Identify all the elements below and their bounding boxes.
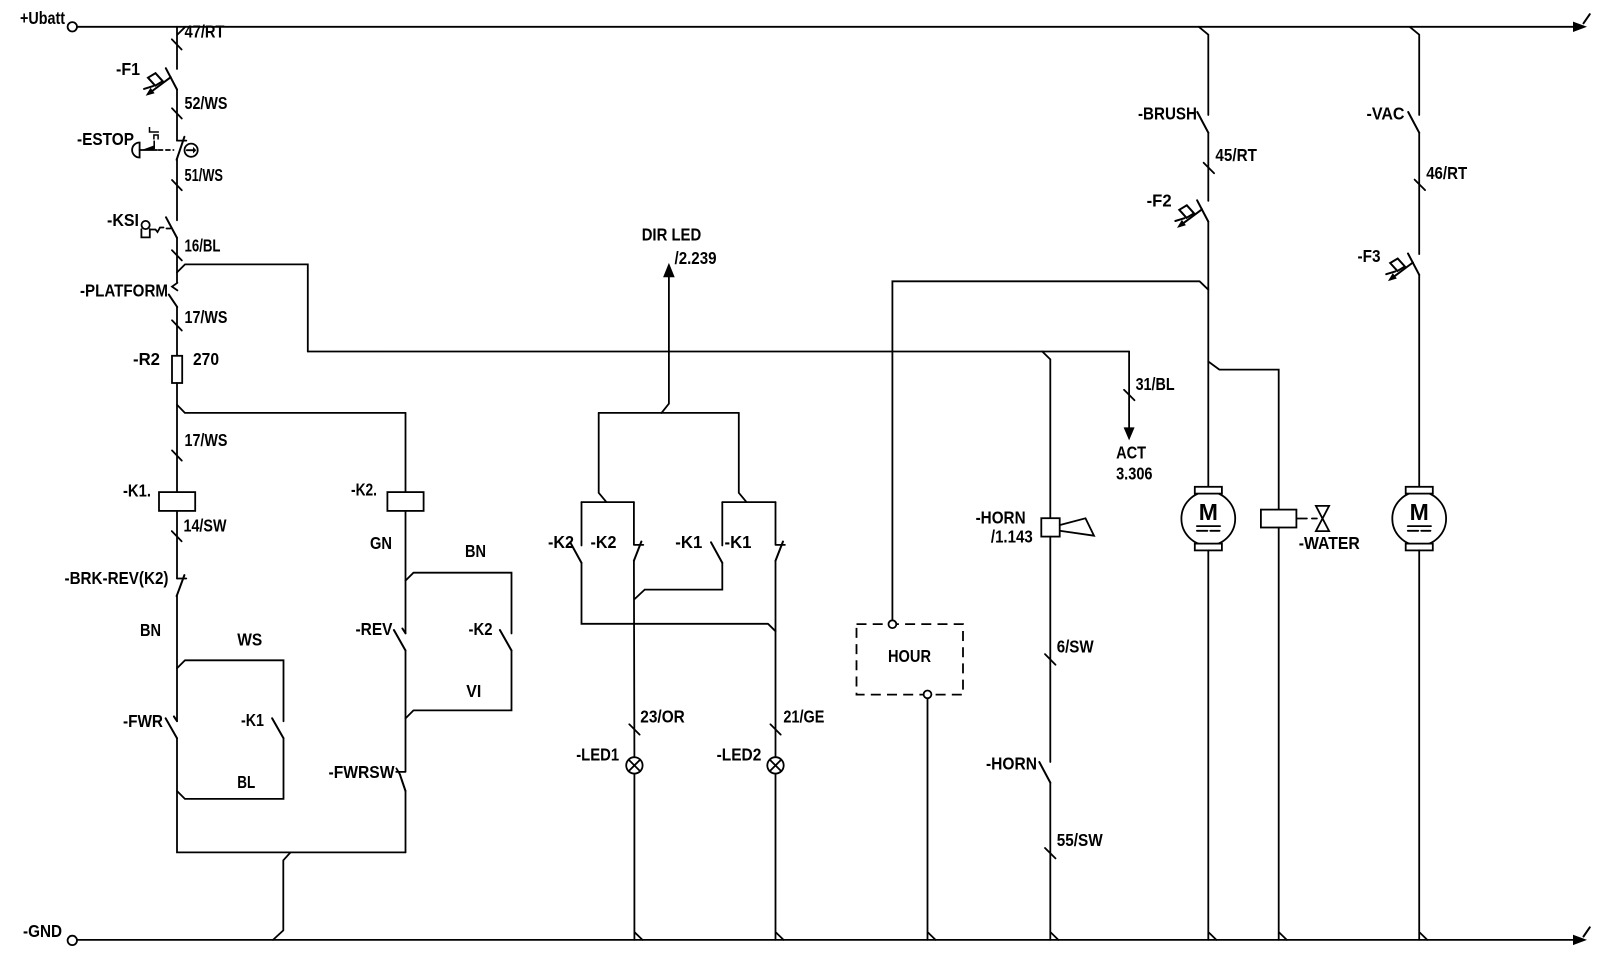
svg-text:46/RT: 46/RT [1426,163,1467,183]
wire horn branch from y=351 net [1042,352,1050,519]
svg-text:-ESTOP: -ESTOP [77,129,134,149]
svg-text:52/WS: 52/WS [185,93,228,113]
svg-text:17/WS: 17/WS [185,307,228,327]
wire F3 to vac motor [1418,275,1420,487]
svg-text:+Ubatt: +Ubatt [20,8,65,28]
wire HOUR to GND rail [928,698,936,940]
svg-text:ACT: ACT [1116,442,1146,462]
wire KSI to PLATFORM [176,238,178,282]
svg-text:-K1: -K1 [725,532,752,552]
wire cross-link K2a to LED2 column [582,563,776,631]
wire left sub-branch [599,413,607,502]
svg-text:-BRUSH: -BRUSH [1138,104,1197,124]
svg-text:45/RT: 45/RT [1215,145,1257,165]
svg-text:47/RT: 47/RT [185,22,225,42]
wire brush motor to GND rail [1208,550,1216,940]
wire left column from +Ubatt rail [177,27,185,69]
svg-text:HOUR: HOUR [888,646,931,666]
svg-text:/1.143: /1.143 [991,527,1033,547]
svg-text:BL: BL [237,772,255,792]
wire branch to horizontal net (y=264) [177,264,308,351]
svg-text:-K2.: -K2. [351,480,377,500]
svg-text:-REV: -REV [356,619,393,639]
wire FWR to bottom joining line [177,738,406,852]
wire F1 to ESTOP [176,90,178,141]
svg-text:-PLATFORM: -PLATFORM [80,281,168,301]
svg-text:-K1: -K1 [241,710,264,730]
wire LED1 column [633,561,636,758]
wire water coil to GND rail [1279,528,1287,940]
wire cross-link K1a to LED1 column [635,563,723,599]
svg-text:3.306: 3.306 [1116,464,1153,484]
wire PLATFORM to R2 [176,307,178,356]
svg-text:-GND: -GND [23,921,62,941]
svg-text:BN: BN [465,541,486,561]
svg-text:-F2: -F2 [1147,190,1172,210]
valve symbol [1316,506,1329,531]
svg-text:-WATER: -WATER [1299,533,1360,553]
svg-text:17/WS: 17/WS [185,430,228,450]
svg-text:-HORN: -HORN [986,753,1037,773]
svg-text:-LED1: -LED1 [576,744,619,764]
wire VAC switch to F3 [1418,133,1420,254]
svg-text:14/SW: 14/SW [184,516,227,536]
wire R2 to K1 coil with branch to K2 (y=413) [176,383,178,492]
svg-text:-HORN: -HORN [976,507,1026,527]
motor M (brush) [1181,487,1235,551]
svg-text:-BRK-REV(K2): -BRK-REV(K2) [65,568,169,588]
wire HOUR top feed [892,281,1208,620]
wire brush column from +Ubatt rail [1199,27,1209,115]
node ACT 3.306 reference arrow (31/BL) [1128,352,1130,429]
svg-text:BN: BN [140,620,161,640]
motor M (vacuum) [1392,487,1446,551]
wire F2 to brush motor [1207,222,1209,487]
wire HORN switch to GND rail [1050,783,1058,940]
wire LED1 to GND rail [634,774,642,940]
wire long horizontal net (y=351) [308,351,1129,353]
wire LED2 column [775,561,777,758]
wire -GND bottom rail [77,939,1574,941]
wire +Ubatt top rail [77,26,1574,28]
wire vac motor to GND rail [1419,550,1427,940]
wire horn to switch [1049,537,1051,762]
svg-text:-K1.: -K1. [123,481,151,501]
wire branch down to K2 coil [405,413,407,492]
svg-text:-VAC: -VAC [1367,104,1405,124]
solenoid coil WATER [1261,510,1297,528]
svg-text:55/SW: 55/SW [1057,830,1103,850]
wire FWRSW to bottom joining line [405,791,407,852]
svg-text:23/OR: 23/OR [640,706,685,726]
svg-text:-R2: -R2 [133,349,160,369]
svg-text:-LED2: -LED2 [717,744,762,764]
wire vac column from +Ubatt rail [1410,27,1420,115]
svg-text:VI: VI [466,681,481,701]
svg-text:-K2: -K2 [591,532,617,552]
svg-text:51/WS: 51/WS [185,165,224,185]
wire DIR LED vertical [662,277,669,413]
wire ESTOP to KSI [176,160,178,221]
svg-text:-F1: -F1 [116,59,140,79]
svg-text:-FWRSW: -FWRSW [329,762,395,782]
wire drop to GND rail at x=283 [273,852,291,940]
svg-text:21/GE: 21/GE [783,706,824,726]
hour meter HOUR (dashed box) [857,624,964,695]
svg-text:270: 270 [193,349,219,369]
svg-text:-KSI: -KSI [107,210,139,230]
svg-text:/2.239: /2.239 [675,248,717,268]
svg-text:WS: WS [237,630,262,650]
svg-text:6/SW: 6/SW [1057,637,1094,657]
svg-text:GN: GN [370,533,392,553]
wire right sub-branch [739,413,747,502]
wire BRUSH switch to F2 [1207,133,1209,201]
wire LED2 to GND rail [776,774,784,940]
wire DIR LED bus [599,412,739,414]
svg-text:-F3: -F3 [1358,246,1381,266]
svg-text:-K2: -K2 [469,619,493,639]
svg-text:16/BL: 16/BL [185,236,221,256]
svg-text:-K1: -K1 [675,532,702,552]
svg-text:DIR LED: DIR LED [642,225,702,245]
svg-text:-FWR: -FWR [123,711,163,731]
wire branch to water valve [1208,362,1278,510]
svg-text:31/BL: 31/BL [1136,374,1175,394]
wire K1 coil to BRK-REV [176,511,178,579]
